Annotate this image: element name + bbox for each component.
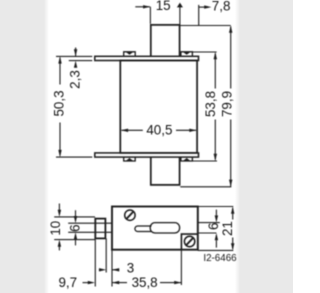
dimension 79,9 line [230,27,232,187]
front view: top-left grip lug [124,52,136,57]
dimension 10 line [58,204,60,251]
35,8 left arrow [112,281,119,284]
dimension 50,3 line [59,58,61,156]
side view: long mounting slot [150,223,179,233]
6 right arrows [215,215,218,222]
svg-text:21: 21 [220,221,235,236]
svg-text:40,5: 40,5 [146,123,172,138]
50,3 arrows [58,56,61,63]
front view: bottom-left grip lug [124,157,136,161]
dimension 9,7 line [83,282,90,284]
svg-text:3: 3 [127,261,134,276]
7,8 arrow [204,5,211,8]
dimension 6 right line [215,210,217,248]
front view: bottom blade [151,157,180,185]
53,8 arrows [214,52,217,59]
gray band right [240,0,293,293]
svg-text:6: 6 [68,224,83,231]
svg-text:79,9: 79,9 [219,91,234,117]
reference line bottom (blade bottom) [180,186,231,188]
3 arrows [99,268,106,271]
svg-text:50,3: 50,3 [52,90,67,116]
dimension 21 line [232,208,234,249]
svg-text:53,8: 53,8 [203,91,218,117]
15 left arrow [143,5,150,8]
dimension 7,8: extension and line [198,5,200,26]
svg-text:I2-6466: I2-6466 [203,253,237,264]
dimension 35,8 line [112,282,181,284]
front view: top-right grip lug [181,52,193,57]
front view: top blade [151,25,180,57]
side view: screw top-left [125,210,135,220]
svg-text:6: 6 [206,223,221,230]
extension dashes left of flanges [56,55,92,57]
dimension 2,3 line [75,48,77,57]
front view: top flange plate [95,56,199,60]
dimension 40,5 line [122,129,197,131]
reference line for 53,8 bottom (lug bottom) [193,160,217,162]
reference line for 53,8 top (lug top) [184,51,217,53]
6 left arrows [74,216,77,223]
dimension 6 left line [75,210,77,245]
2,3 arrows [74,49,77,56]
reference line top (blade top) [180,25,231,27]
side view top reference line [198,206,234,208]
dimension texts [48,0,237,290]
svg-text:10: 10 [48,221,63,236]
svg-text:9,7: 9,7 [58,275,77,290]
svg-text:35,8: 35,8 [132,275,158,290]
side view: blade clamp block [95,219,105,239]
side view: screw bottom-right [184,236,194,246]
dimension 3 line [99,269,119,271]
front view: bottom-right grip lug [181,157,193,161]
front view: ceramic body [120,61,197,153]
lug notches [126,52,133,55]
side view: small keyhole slot [135,226,152,232]
dimension 53,8 line [214,53,216,160]
10 arrows [58,210,61,217]
gray band left [0,0,44,293]
arrowheads [58,3,235,285]
extension lines for 10 [54,216,95,218]
side view bottom reference line [198,249,234,251]
15 right up-arrow [177,3,183,8]
svg-text:2,3: 2,3 [67,70,82,89]
side view right extension lines (slot) [198,222,220,224]
9,7 arrow [88,281,95,284]
bottom extension verticals [94,239,96,286]
dimension 15: line and extensions [135,6,150,8]
40,5 arrows [121,129,128,132]
21 arrows [231,207,234,214]
side view: sub panel [181,234,197,250]
79,9 arrows [229,26,232,33]
svg-text:7,8: 7,8 [212,0,231,13]
front view: bottom flange plate [95,153,199,157]
side view: blade seen edge-on [68,222,112,224]
side view: housing body [112,207,198,250]
35,8 right arrow [174,281,181,284]
svg-text:15: 15 [156,0,171,13]
